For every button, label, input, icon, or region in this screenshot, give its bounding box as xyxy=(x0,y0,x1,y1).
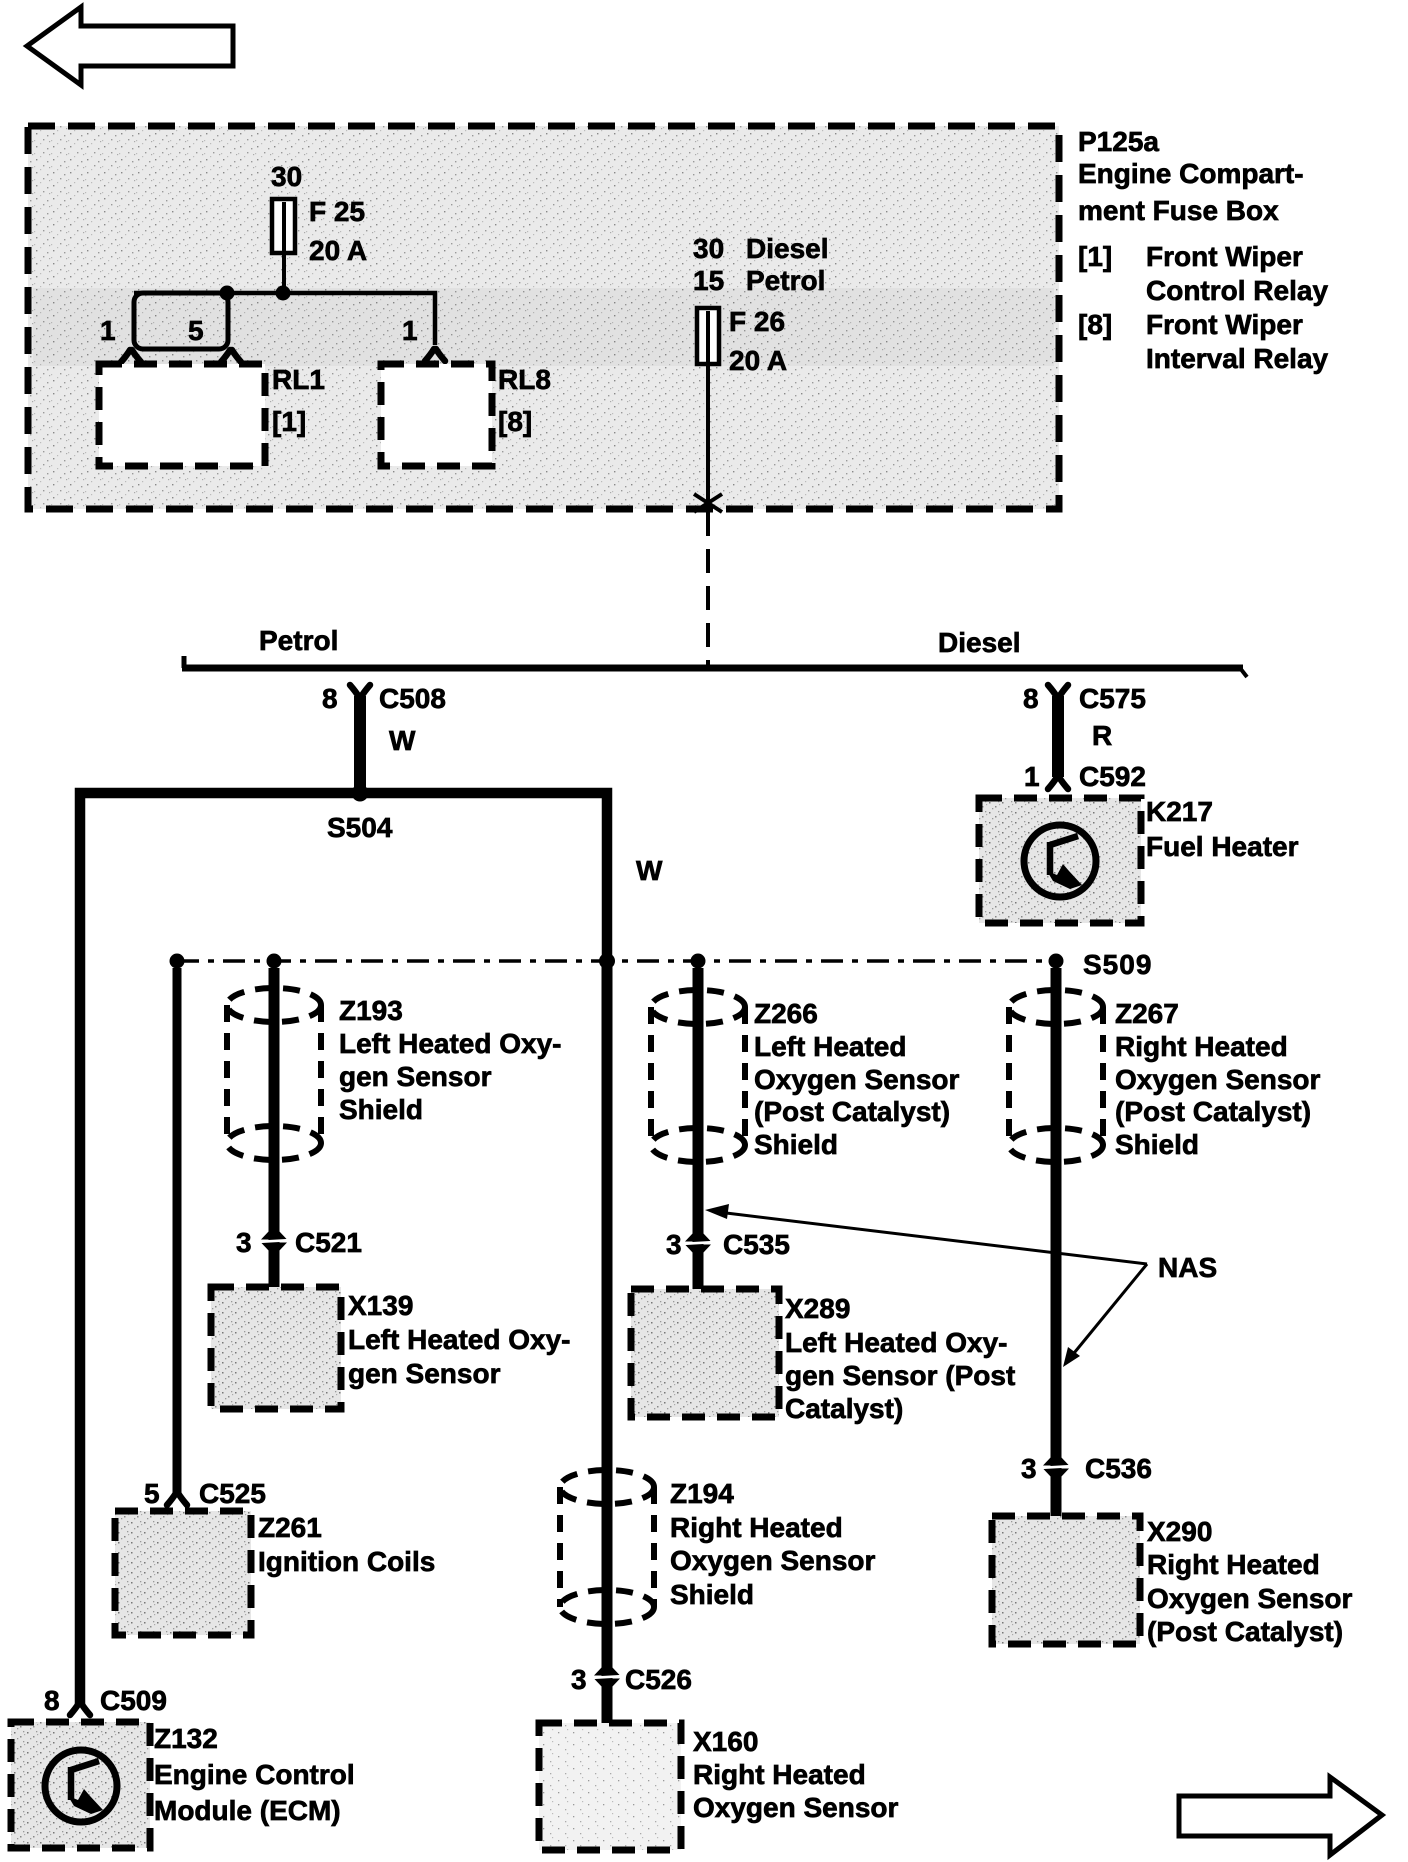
svg-text:8: 8 xyxy=(322,683,338,714)
svg-text:20 A: 20 A xyxy=(309,235,367,266)
svg-text:K217: K217 xyxy=(1146,796,1213,827)
svg-text:P125a: P125a xyxy=(1078,126,1159,157)
connector C536 xyxy=(1021,1453,1152,1484)
wire C575 to C592 xyxy=(1052,696,1064,777)
wire S509 to X289 xyxy=(693,968,704,1289)
svg-text:gen Sensor: gen Sensor xyxy=(339,1061,492,1092)
svg-text:Petrol: Petrol xyxy=(746,265,825,296)
wire F26 down to box edge xyxy=(706,364,710,506)
svg-text:[1]: [1] xyxy=(1078,241,1112,272)
fuel heater K217 xyxy=(979,796,1299,923)
connector C525 xyxy=(144,1478,266,1509)
svg-text:Right Heated: Right Heated xyxy=(1115,1031,1288,1062)
connector C509 xyxy=(44,1685,167,1716)
svg-text:Right Heated: Right Heated xyxy=(693,1759,866,1790)
engine control module Z132 xyxy=(11,1722,355,1848)
svg-text:1: 1 xyxy=(1024,761,1040,792)
labels 30 Diesel / 15 Petrol xyxy=(693,233,829,296)
svg-text:8: 8 xyxy=(44,1685,60,1716)
shield Z193 xyxy=(227,988,562,1160)
svg-text:Right Heated: Right Heated xyxy=(1147,1549,1320,1580)
svg-text:[1]: [1] xyxy=(272,406,306,437)
svg-text:F 25: F 25 xyxy=(309,196,365,227)
node at F25 wire junction xyxy=(276,286,291,301)
svg-text:Oxygen Sensor: Oxygen Sensor xyxy=(1115,1064,1321,1095)
svg-text:Control Relay: Control Relay xyxy=(1146,275,1328,306)
node at RL1 pin 5 xyxy=(220,286,235,301)
svg-text:Engine Compart-: Engine Compart- xyxy=(1078,158,1304,189)
svg-text:C508: C508 xyxy=(379,683,446,714)
svg-text:Shield: Shield xyxy=(754,1129,838,1160)
svg-text:(Post Catalyst): (Post Catalyst) xyxy=(754,1096,950,1127)
svg-text:Front Wiper: Front Wiper xyxy=(1146,241,1303,272)
oxygen sensor X139 xyxy=(211,1287,571,1409)
wire S509 to X139 xyxy=(269,968,280,1287)
svg-text:Oxygen Sensor: Oxygen Sensor xyxy=(693,1792,899,1823)
svg-text:Diesel: Diesel xyxy=(746,233,829,264)
fuse F26 xyxy=(697,306,787,376)
svg-text:Z267: Z267 xyxy=(1115,998,1179,1029)
svg-text:C535: C535 xyxy=(723,1229,790,1260)
svg-text:Oxygen Sensor: Oxygen Sensor xyxy=(670,1545,876,1576)
svg-text:Shield: Shield xyxy=(1115,1129,1199,1160)
wire S509 to C525 xyxy=(173,968,182,1493)
svg-text:3: 3 xyxy=(571,1664,587,1695)
splice bus S509 xyxy=(170,949,1153,980)
svg-text:RL1: RL1 xyxy=(272,364,325,395)
svg-text:F 26: F 26 xyxy=(729,306,785,337)
svg-text:C536: C536 xyxy=(1085,1453,1152,1484)
wire C508 to S504 xyxy=(354,696,366,788)
crossing mark at box edge xyxy=(694,494,722,512)
svg-text:30: 30 xyxy=(693,233,724,264)
svg-text:30: 30 xyxy=(271,161,302,192)
relay RL1 pin loop (pins 1 and 5) xyxy=(100,293,241,362)
svg-text:[8]: [8] xyxy=(1078,309,1112,340)
svg-text:C592: C592 xyxy=(1079,761,1146,792)
svg-text:Z132: Z132 xyxy=(154,1723,218,1754)
fuse F25 xyxy=(272,196,367,266)
svg-text:C526: C526 xyxy=(625,1664,692,1695)
svg-text:Z194: Z194 xyxy=(670,1478,734,1509)
oxygen sensor X290 xyxy=(992,1516,1353,1647)
wire F25 to relay feed bus xyxy=(282,253,286,293)
svg-text:X290: X290 xyxy=(1147,1516,1212,1547)
svg-text:Catalyst): Catalyst) xyxy=(785,1393,903,1424)
svg-text:NAS: NAS xyxy=(1158,1252,1217,1283)
svg-text:Left Heated Oxy-: Left Heated Oxy- xyxy=(785,1327,1008,1358)
svg-text:Oxygen Sensor: Oxygen Sensor xyxy=(754,1064,960,1095)
wire S504 rail to X160 xyxy=(602,958,613,1723)
connector C521 xyxy=(236,1227,362,1258)
svg-text:Diesel: Diesel xyxy=(938,627,1021,658)
shield Z266 xyxy=(651,990,960,1162)
svg-text:C521: C521 xyxy=(295,1227,362,1258)
svg-text:X160: X160 xyxy=(693,1726,758,1757)
svg-text:ment Fuse Box: ment Fuse Box xyxy=(1078,195,1279,226)
ignition coils Z261 xyxy=(115,1511,435,1635)
svg-text:20 A: 20 A xyxy=(729,345,787,376)
svg-text:R: R xyxy=(1092,720,1112,751)
svg-text:Left Heated Oxy-: Left Heated Oxy- xyxy=(348,1324,571,1355)
svg-text:3: 3 xyxy=(1021,1453,1037,1484)
svg-text:Shield: Shield xyxy=(339,1094,423,1125)
relay RL1 box xyxy=(99,364,325,466)
svg-text:Z193: Z193 xyxy=(339,995,403,1026)
relay RL8 pin 1 xyxy=(402,315,445,361)
connector C526 xyxy=(571,1664,692,1695)
svg-text:C575: C575 xyxy=(1079,683,1146,714)
svg-text:RL8: RL8 xyxy=(498,364,551,395)
svg-text:8: 8 xyxy=(1023,683,1039,714)
fuse box P125a enclosure xyxy=(28,126,1059,509)
relay RL8 box xyxy=(381,364,551,466)
wire S504 branch rail xyxy=(80,793,607,1705)
svg-text:gen Sensor (Post: gen Sensor (Post xyxy=(785,1360,1015,1391)
svg-text:3: 3 xyxy=(666,1229,682,1260)
svg-text:X139: X139 xyxy=(348,1290,413,1321)
svg-text:1: 1 xyxy=(402,315,418,346)
svg-text:Module (ECM): Module (ECM) xyxy=(154,1795,341,1826)
svg-text:C509: C509 xyxy=(100,1685,167,1716)
connector C592 xyxy=(1024,761,1146,792)
svg-text:15: 15 xyxy=(693,265,724,296)
connector C575 xyxy=(1023,683,1146,714)
connector C508 xyxy=(322,683,446,714)
svg-text:[8]: [8] xyxy=(498,406,532,437)
svg-text:(Post Catalyst): (Post Catalyst) xyxy=(1147,1616,1343,1647)
shield Z194 xyxy=(560,1470,876,1624)
page-forward arrow xyxy=(1179,1777,1382,1855)
svg-text:3: 3 xyxy=(236,1227,252,1258)
svg-text:(Post Catalyst): (Post Catalyst) xyxy=(1115,1096,1311,1127)
oxygen sensor X160 xyxy=(539,1723,899,1850)
oxygen sensor X289 xyxy=(631,1289,1015,1424)
dashed wire below fuse box xyxy=(706,512,710,666)
svg-text:Z261: Z261 xyxy=(258,1512,322,1543)
svg-text:Petrol: Petrol xyxy=(259,625,338,656)
svg-text:1: 1 xyxy=(100,315,116,346)
svg-text:Ignition Coils: Ignition Coils xyxy=(258,1546,435,1577)
wire S509 to X290 xyxy=(1051,968,1062,1516)
splice S504 xyxy=(327,785,393,844)
svg-text:Fuel Heater: Fuel Heater xyxy=(1146,831,1299,862)
svg-text:Oxygen Sensor: Oxygen Sensor xyxy=(1147,1583,1353,1614)
svg-text:C525: C525 xyxy=(199,1478,266,1509)
NAS label and arrows xyxy=(705,1204,1217,1367)
svg-text:S504: S504 xyxy=(327,812,393,843)
svg-text:Front Wiper: Front Wiper xyxy=(1146,309,1303,340)
svg-text:Z266: Z266 xyxy=(754,998,818,1029)
svg-text:Engine Control: Engine Control xyxy=(154,1759,355,1790)
svg-text:5: 5 xyxy=(188,315,204,346)
svg-text:Interval Relay: Interval Relay xyxy=(1146,343,1329,374)
svg-text:W: W xyxy=(636,855,663,886)
svg-text:W: W xyxy=(389,725,416,756)
svg-text:5: 5 xyxy=(144,1478,160,1509)
svg-text:X289: X289 xyxy=(785,1293,850,1324)
wire relay feed bus xyxy=(134,293,435,345)
svg-text:Left Heated: Left Heated xyxy=(754,1031,906,1062)
svg-text:Left Heated Oxy-: Left Heated Oxy- xyxy=(339,1028,562,1059)
svg-text:Shield: Shield xyxy=(670,1579,754,1610)
svg-text:S509: S509 xyxy=(1083,949,1152,980)
power bus wire xyxy=(182,656,1247,677)
page-back arrow xyxy=(27,7,233,85)
svg-text:gen Sensor: gen Sensor xyxy=(348,1358,501,1389)
connector C535 xyxy=(666,1229,790,1260)
shield Z267 xyxy=(1009,990,1321,1162)
svg-text:Right Heated: Right Heated xyxy=(670,1512,843,1543)
fuse box side labels xyxy=(1078,126,1329,374)
